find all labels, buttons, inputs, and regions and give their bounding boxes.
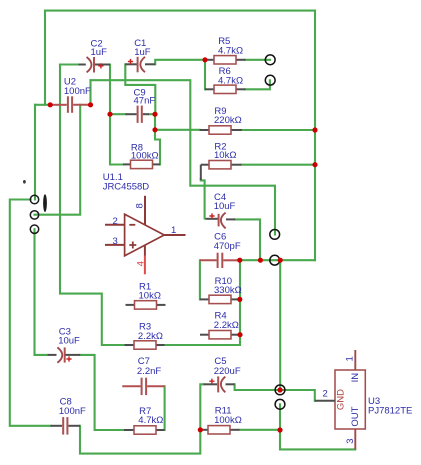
svg-text:2.2kΩ: 2.2kΩ [214,320,239,331]
svg-text:IN: IN [350,373,361,383]
wire R9 left [155,129,200,131]
svg-text:1: 1 [171,225,176,236]
svg-text:100kΩ: 100kΩ [214,415,242,426]
wire top horizontal [45,10,315,12]
wire U2 right riser [89,80,91,105]
svg-text:470pF: 470pF [214,241,241,252]
wire R5 right to pad [246,59,271,61]
svg-text:10kΩ: 10kΩ [139,290,161,301]
OPAMP U1.1 [103,172,186,274]
jack lever ellipse [43,194,47,212]
svg-text:4.7kΩ: 4.7kΩ [138,415,163,426]
wire C5 right to pad [235,384,315,401]
resistor R11 [201,406,242,434]
U3 pin 3 [354,429,356,449]
wire C9 right [149,113,155,115]
wire bus row y260 [238,259,315,261]
wire vertical to jack tip [34,105,36,200]
resistor R1 [126,281,166,309]
U3 pin 1 [354,350,356,370]
pad R5 output [265,55,275,65]
capacitor C9 (47nF) [126,88,156,123]
junction rail R9 [312,127,317,132]
wire left vertical from top to U2 node [44,11,46,105]
resistor R7 [124,406,165,434]
svg-text:1: 1 [345,356,356,361]
capacitor C6 (470pF) [200,231,241,268]
pad lower A [275,385,285,395]
jack tip pad [30,195,38,203]
pad R6 output [265,75,275,85]
wire R2 right [241,164,315,166]
capacitor C1 (polarized) [125,38,155,72]
RESISTORS [123,36,246,434]
svg-text:10uF: 10uF [214,201,236,212]
wire R3 right to R4 rail [165,344,241,346]
pad mid upper [270,230,280,240]
svg-text:OUT: OUT [350,406,361,426]
wire bus to pad lower A [279,260,281,390]
resistor R9 [200,106,242,134]
U3 REGULATOR [315,350,413,449]
svg-text:2: 2 [113,216,118,227]
wire R11 node to U3 pin3 [280,430,355,449]
junction R5 left [202,57,207,62]
capacitor C8 (100nF) [51,397,87,435]
op-amp plus symbol [129,242,136,249]
wire C2 left horizontal [60,63,79,65]
svg-text:10kΩ: 10kΩ [214,150,236,161]
junction R9 left [152,127,157,132]
resistor R4 [200,311,240,339]
capacitor C4 (polarized 10uF) [206,192,236,228]
junction pad row [278,258,283,263]
capacitor U2 (100nF) [52,77,91,113]
wire C9 to R9 node [155,114,160,164]
resistor R10 [200,276,242,304]
svg-text:GND: GND [336,389,347,410]
svg-text:2.2nF: 2.2nF [137,366,161,377]
jack ring pad [30,211,38,219]
resistor R8 [123,142,160,168]
U3 body [335,370,365,429]
op-amp U1.1 triangle [125,214,165,256]
op-amp pin 4 power [144,245,146,255]
wire R5 to R6 vertical [204,60,206,90]
svg-text:3: 3 [345,438,356,443]
svg-text:220kΩ: 220kΩ [214,115,242,126]
junction U2 right [88,102,93,107]
svg-text:10uF: 10uF [58,336,80,347]
wire C5 left to R11 [200,384,203,430]
pad lower B [275,399,285,409]
resistor R3 [125,321,165,349]
svg-text:3: 3 [113,236,118,247]
svg-text:2: 2 [323,389,328,400]
wire right rail [314,11,316,261]
resistor R5 [205,36,246,64]
junction C6 right [237,258,242,263]
svg-text:2.2kΩ: 2.2kΩ [138,331,163,342]
junction pad lower A [277,387,282,392]
capacitor C2 (polarized, mirrored) [79,38,111,72]
wire C2 right down to R8 [110,65,123,165]
op-amp pin 3 [105,244,125,246]
resistor R2 [201,142,242,180]
wire R6 right to pad [246,80,270,89]
JACK CONNECTOR [23,180,47,233]
wire C1 left down jog [125,64,155,114]
U3 pin 2 [315,400,335,402]
wire C8 right to bottom rail [80,426,200,454]
svg-text:4: 4 [136,261,147,266]
svg-text:4.7kΩ: 4.7kΩ [218,46,243,57]
svg-text:100nF: 100nF [59,406,86,417]
svg-text:100kΩ: 100kΩ [131,150,159,161]
svg-text:100nF: 100nF [64,86,91,97]
jack small dot [23,180,26,184]
svg-text:PJ7812TE: PJ7812TE [368,406,412,417]
wire C6 left to R10 [199,260,201,299]
svg-text:330kΩ: 330kΩ [214,285,242,296]
CAPACITORS [48,38,241,435]
wire C4 right [235,219,260,260]
capacitor C3 (polarized, mirrored 10uF) [48,327,81,363]
wire C9 left [110,113,126,115]
svg-text:4.7kΩ: 4.7kΩ [218,76,243,87]
wire R9 right [242,129,315,131]
wire jack ring3 down to C3 [35,229,48,355]
junction C4 branch [258,258,263,263]
svg-text:220uF: 220uF [214,366,241,377]
op-amp pin 8 power [144,196,146,225]
wire C3 right to R7 [80,355,124,430]
jack sleeve pad [30,225,38,233]
junction R4 right [237,332,242,337]
wire C2 left vertical loop [60,65,125,346]
wire distribution horizontal y80 [91,80,276,234]
wire U2 left stub [35,104,48,106]
wire C1 right to R5 [155,60,205,65]
svg-text:1uF: 1uF [91,47,108,58]
wire jack tip to left rail [10,200,51,426]
junction C9 left [107,112,112,117]
junction C9 right [152,112,157,117]
svg-text:1uF: 1uF [134,47,151,58]
wire pad2 to R11 node [279,404,281,430]
junction R10 right [237,297,242,302]
capacitor C5 (polarized 220uF) [204,356,241,392]
svg-text:47nF: 47nF [134,96,156,107]
pad mid lower [270,255,280,265]
resistor R6 [205,66,246,93]
wire R11 right [240,429,281,431]
junction rail R2 [312,162,317,167]
svg-text:8: 8 [135,203,146,208]
wire R2 left to C4 [201,179,205,218]
op-amp output pin 1 [164,234,185,236]
op-amp pin 2 [105,224,125,226]
PADS [265,55,285,409]
junction R11 right [277,427,282,432]
wire R4 rail vertical [239,260,241,345]
junction R11 left [198,427,203,432]
svg-text:JRC4558D: JRC4558D [103,181,150,192]
junction U2 left [48,102,53,107]
op-amp minus symbol [129,224,135,226]
capacitor C7 (2.2nF) [122,356,164,395]
wire C7 right to R7 right [164,386,166,430]
wire U2 right to jack ring [35,105,81,215]
